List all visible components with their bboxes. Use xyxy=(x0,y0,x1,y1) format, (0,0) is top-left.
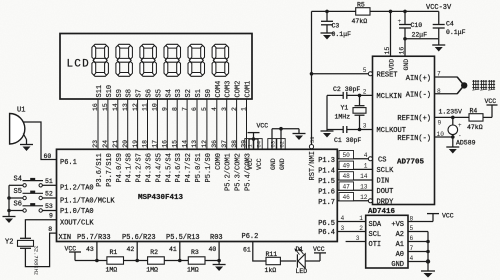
MCU RST/NMI pin 58 wire to AD7705 RESET xyxy=(309,11,369,180)
svg-text:S8: S8 xyxy=(126,89,134,97)
svg-text:VCC: VCC xyxy=(442,212,454,219)
svg-text:15: 15 xyxy=(384,47,391,55)
MCU GND pins 63 and 62 xyxy=(268,127,299,170)
svg-text:XOUT/CLK: XOUT/CLK xyxy=(60,220,94,228)
svg-text:R2: R2 xyxy=(150,249,158,256)
wire clock caps ground rail xyxy=(326,95,328,131)
wire +VS to VCC xyxy=(408,214,433,222)
svg-text:20: 20 xyxy=(122,140,129,148)
capacitor C2 30pF xyxy=(327,86,373,99)
svg-text:6: 6 xyxy=(191,107,198,111)
svg-text:4: 4 xyxy=(410,255,414,262)
svg-text:12: 12 xyxy=(201,140,208,148)
svg-text:P5.1/S0: P5.1/S0 xyxy=(205,153,213,182)
svg-text:S5: S5 xyxy=(155,89,163,97)
svg-text:R4: R4 xyxy=(470,107,478,114)
ground for AD589 xyxy=(446,147,459,154)
svg-text:16: 16 xyxy=(399,47,406,55)
svg-text:P4.6/S3: P4.6/S3 xyxy=(175,153,183,182)
svg-text:32.768kHz: 32.768kHz xyxy=(33,246,40,276)
LCD digit 1 xyxy=(92,44,109,76)
svg-text:3: 3 xyxy=(341,225,345,232)
wire LCD bias rail xyxy=(75,242,221,263)
svg-text:S5: S5 xyxy=(14,188,22,196)
svg-text:13: 13 xyxy=(360,183,368,190)
svg-text:5: 5 xyxy=(201,107,208,111)
wires A2 A1 A0 GND to ground rail xyxy=(408,232,430,272)
svg-text:P4.7/S2: P4.7/S2 xyxy=(185,153,193,182)
svg-text:37: 37 xyxy=(221,140,228,148)
svg-text:S3: S3 xyxy=(175,89,183,97)
ground for clock caps xyxy=(321,131,334,138)
svg-text:60: 60 xyxy=(44,153,52,160)
svg-text:1: 1 xyxy=(241,107,248,111)
svg-text:P1.3: P1.3 xyxy=(318,157,335,165)
LCD digit 2 xyxy=(116,44,132,76)
LCD digit 6 xyxy=(212,44,229,76)
svg-text:-: - xyxy=(458,133,462,140)
svg-text:COM1: COM1 xyxy=(245,81,253,98)
MCU right pin labels P1.3-P1.7 P6.5 P6.4 xyxy=(318,157,335,237)
svg-text:S11: S11 xyxy=(96,85,104,98)
LCD digit 5 xyxy=(188,44,205,76)
svg-text:Y2: Y2 xyxy=(5,239,13,247)
svg-text:62: 62 xyxy=(279,141,286,148)
wire XOUT/CLK pin 9 to crystal xyxy=(25,213,56,239)
svg-text:P5.2/COM1: P5.2/COM1 xyxy=(225,153,233,191)
wire buzzer to MCU pin 60 P6.1 xyxy=(23,122,56,160)
svg-text:R3: R3 xyxy=(191,249,199,256)
thermocouple label (hanzi) xyxy=(472,80,495,90)
svg-text:AIN(-): AIN(-) xyxy=(406,91,431,99)
svg-text:1.235V: 1.235V xyxy=(439,109,463,116)
svg-text:GND: GND xyxy=(403,59,410,71)
svg-text:S9: S9 xyxy=(116,89,124,97)
LCD digit 4 xyxy=(164,44,181,76)
svg-text:S6: S6 xyxy=(14,201,22,209)
svg-text:P1.6: P1.6 xyxy=(318,188,335,196)
svg-text:14: 14 xyxy=(360,173,368,180)
svg-text:58: 58 xyxy=(309,136,316,143)
svg-text:A1: A1 xyxy=(396,241,404,249)
svg-text:AD589: AD589 xyxy=(456,140,476,147)
AD7416 right pin labels xyxy=(391,215,413,268)
ground for AD7416 address pins xyxy=(421,271,435,278)
svg-text:S10: S10 xyxy=(106,85,114,98)
capacitor C10 22uF xyxy=(398,11,428,38)
svg-text:18: 18 xyxy=(142,140,149,148)
crystal Y2 32.768kHz xyxy=(5,238,40,275)
buzzer U1 xyxy=(10,107,26,145)
ADC U3 AD7705 box xyxy=(373,56,435,204)
ground for switches xyxy=(3,217,16,224)
svg-text:REFIN(-): REFIN(-) xyxy=(397,135,431,143)
svg-text:P6.5: P6.5 xyxy=(318,220,335,228)
svg-text:VDD: VDD xyxy=(389,59,396,71)
svg-text:GND: GND xyxy=(391,261,404,269)
svg-text:VCC: VCC xyxy=(257,123,269,130)
svg-text:MCLKIN: MCLKIN xyxy=(377,93,402,101)
svg-text:3: 3 xyxy=(363,123,367,130)
ground for supply caps xyxy=(432,45,445,52)
svg-text:3: 3 xyxy=(221,107,228,111)
svg-text:12: 12 xyxy=(132,103,139,111)
svg-text:P4.1/S8: P4.1/S8 xyxy=(126,153,134,182)
svg-text:S2: S2 xyxy=(185,89,193,97)
power VCC symbol at R33 ladder xyxy=(65,246,82,261)
svg-text:MSP430F413: MSP430F413 xyxy=(138,194,184,202)
LED D1 xyxy=(294,246,307,275)
svg-text:P5.7/R33: P5.7/R33 xyxy=(77,234,111,242)
svg-text:SDA: SDA xyxy=(369,221,382,229)
resistor R4 47k xyxy=(467,105,492,131)
svg-text:P4.5/S4: P4.5/S4 xyxy=(165,153,173,182)
svg-text:AIN(+): AIN(+) xyxy=(406,75,431,83)
svg-text:46: 46 xyxy=(342,194,350,201)
svg-text:12: 12 xyxy=(360,194,368,201)
svg-text:4: 4 xyxy=(211,107,218,111)
svg-text:COM3: COM3 xyxy=(225,81,233,98)
svg-text:DRDY: DRDY xyxy=(377,198,395,206)
svg-text:P3.7/S10: P3.7/S10 xyxy=(106,153,114,187)
svg-text:48: 48 xyxy=(342,173,350,180)
crystal Y1 1MHz xyxy=(335,94,367,132)
svg-text:RST/NMI: RST/NMI xyxy=(309,151,317,180)
svg-text:14: 14 xyxy=(181,140,188,148)
svg-text:VCC: VCC xyxy=(256,158,263,170)
svg-text:VCC: VCC xyxy=(313,246,325,253)
svg-text:51: 51 xyxy=(45,178,53,185)
svg-text:16: 16 xyxy=(92,103,99,111)
wire crystal to XIN pin 8 xyxy=(25,226,56,267)
svg-text:P5.3/COM2: P5.3/COM2 xyxy=(235,153,243,191)
svg-text:10: 10 xyxy=(152,103,159,111)
svg-text:8: 8 xyxy=(171,107,178,111)
svg-text:5: 5 xyxy=(363,67,367,74)
switch S6 pushbutton xyxy=(9,201,57,213)
MCU VCC pins 1 and 64 xyxy=(245,133,263,170)
svg-text:C3: C3 xyxy=(332,22,340,29)
svg-text:S4: S4 xyxy=(14,176,22,184)
svg-text:P3.6/S11: P3.6/S11 xyxy=(96,153,104,187)
wires MCU P6.5 P6.4 to AD7416 SDA SCL xyxy=(337,215,365,232)
AD7705 VDD GND top pins xyxy=(384,11,410,70)
power VCC symbol above MCU xyxy=(248,123,269,133)
svg-text:4: 4 xyxy=(364,152,368,159)
svg-text:7: 7 xyxy=(410,245,414,252)
MCU bottom row pin labels xyxy=(59,233,259,242)
resistor R11 1k xyxy=(265,251,297,274)
svg-text:SCL: SCL xyxy=(369,231,382,239)
svg-text:43: 43 xyxy=(86,246,94,253)
svg-text:3: 3 xyxy=(356,235,360,242)
svg-text:C1 30pF: C1 30pF xyxy=(334,137,361,144)
svg-text:15: 15 xyxy=(171,140,178,148)
svg-text:2: 2 xyxy=(359,225,363,232)
LCD module xyxy=(60,34,252,100)
svg-text:1MΩ: 1MΩ xyxy=(106,266,118,273)
svg-text:P1.1/TA0/MCLK: P1.1/TA0/MCLK xyxy=(60,198,115,206)
svg-text:1: 1 xyxy=(359,215,363,222)
switch S4 pushbutton xyxy=(9,176,57,188)
wire AIN+ pin 7 xyxy=(435,76,458,78)
svg-text:R11: R11 xyxy=(266,251,278,258)
svg-text:S0: S0 xyxy=(205,89,213,97)
svg-text:14: 14 xyxy=(112,103,119,111)
svg-text:4: 4 xyxy=(341,215,345,222)
wire LED to VCC xyxy=(305,253,320,261)
wires LCD to MCU with pin numbers xyxy=(92,99,248,149)
svg-text:9: 9 xyxy=(438,120,442,127)
svg-text:GND: GND xyxy=(270,158,277,170)
svg-text:A0: A0 xyxy=(396,251,404,259)
svg-text:CS: CS xyxy=(378,157,386,165)
MCU top segment pin labels xyxy=(96,153,253,191)
resistor R5 47k xyxy=(352,1,371,25)
svg-text:61: 61 xyxy=(243,247,251,254)
resistor R3 1M xyxy=(187,249,205,273)
svg-text:7: 7 xyxy=(437,70,441,77)
svg-text:6: 6 xyxy=(410,235,414,242)
svg-text:VCC: VCC xyxy=(247,158,254,170)
svg-text:RESET: RESET xyxy=(377,72,398,80)
wires MCU P1.3-P1.7 to AD7705 with pin number boxes xyxy=(337,151,372,202)
svg-text:P6.2: P6.2 xyxy=(242,233,259,241)
svg-text:47kΩ: 47kΩ xyxy=(352,18,368,25)
svg-text:GND: GND xyxy=(279,158,286,170)
svg-text:23: 23 xyxy=(92,140,99,148)
svg-text:U1: U1 xyxy=(17,107,25,115)
svg-text:P1.4: P1.4 xyxy=(318,168,335,176)
svg-text:36: 36 xyxy=(211,140,218,148)
svg-text:9: 9 xyxy=(49,213,53,220)
svg-text:15: 15 xyxy=(102,103,109,111)
svg-text:A2: A2 xyxy=(396,231,404,239)
svg-text:P6.4: P6.4 xyxy=(318,229,335,237)
temperature sensor U4 AD7416 box xyxy=(366,208,408,268)
svg-text:Y1: Y1 xyxy=(341,105,349,112)
svg-text:P4.4/S5: P4.4/S5 xyxy=(155,153,163,182)
svg-text:47kΩ: 47kΩ xyxy=(467,124,483,131)
svg-text:1: 1 xyxy=(364,163,368,170)
svg-text:64: 64 xyxy=(256,140,263,147)
wire AIN- pin 8 xyxy=(435,93,458,95)
svg-text:41: 41 xyxy=(169,246,177,253)
thermocouple junction symbol xyxy=(457,77,467,94)
svg-text:13: 13 xyxy=(122,103,129,111)
ground for C3 xyxy=(321,33,334,40)
svg-text:1MΩ: 1MΩ xyxy=(146,266,158,273)
MCU left pin labels xyxy=(60,159,115,228)
wire REFIN- pin 10 xyxy=(435,135,455,139)
AD7705 right pin labels xyxy=(397,70,444,143)
svg-text:17: 17 xyxy=(152,140,159,148)
svg-text:OTI: OTI xyxy=(369,241,382,249)
svg-text:P4.3/S6: P4.3/S6 xyxy=(146,153,154,182)
wire REFIN+ pin 9 to R4 and VCC xyxy=(435,109,470,120)
ground at end of bias ladder xyxy=(213,261,226,272)
svg-text:53: 53 xyxy=(45,203,53,210)
svg-text:8: 8 xyxy=(48,226,52,233)
svg-text:7: 7 xyxy=(181,107,188,111)
svg-text:REFIN(+): REFIN(+) xyxy=(397,115,431,123)
svg-text:P1.5: P1.5 xyxy=(318,178,335,186)
svg-text:24: 24 xyxy=(102,140,109,148)
svg-text:11: 11 xyxy=(142,103,149,111)
resistor R2 1M xyxy=(146,249,164,273)
svg-text:21: 21 xyxy=(112,140,119,148)
svg-text:+VS: +VS xyxy=(391,221,404,229)
capacitor C1 30pF xyxy=(327,126,373,144)
svg-text:P5.5/R13: P5.5/R13 xyxy=(166,234,200,242)
wire C10 C4 ground rail xyxy=(403,37,439,45)
svg-text:S6: S6 xyxy=(146,89,154,97)
AD7416 left pin labels xyxy=(369,221,382,249)
svg-text:SCLK: SCLK xyxy=(377,167,395,175)
svg-text:P5.6/R23: P5.6/R23 xyxy=(122,234,156,242)
svg-text:1kΩ: 1kΩ xyxy=(265,267,277,274)
svg-text:AD7416: AD7416 xyxy=(368,208,396,216)
svg-text:S4: S4 xyxy=(165,89,173,97)
svg-text:S1: S1 xyxy=(195,89,203,97)
svg-text:P4.2/S7: P4.2/S7 xyxy=(136,153,144,182)
svg-text:2: 2 xyxy=(231,107,238,111)
svg-text:DIN: DIN xyxy=(377,178,390,186)
svg-text:C4: C4 xyxy=(446,20,454,27)
svg-text:+: + xyxy=(458,122,462,129)
svg-text:P4.0/S9: P4.0/S9 xyxy=(116,153,124,182)
svg-text:0.1μF: 0.1μF xyxy=(446,29,466,36)
svg-text:42: 42 xyxy=(127,246,135,253)
svg-text:MCLKOUT: MCLKOUT xyxy=(377,127,406,135)
svg-text:P1.7: P1.7 xyxy=(318,199,335,207)
ground for MCU GND pins xyxy=(293,134,306,141)
svg-text:2: 2 xyxy=(363,88,367,95)
svg-text:1MΩ: 1MΩ xyxy=(187,266,199,273)
svg-text:5: 5 xyxy=(410,225,414,232)
svg-text:1MHz: 1MHz xyxy=(335,113,351,120)
power VCC symbol at LED xyxy=(313,246,326,253)
wire MCU pin 61 P6.2 to R11 xyxy=(243,242,266,262)
svg-text:COM0: COM0 xyxy=(215,153,223,170)
svg-text:R03: R03 xyxy=(210,234,223,242)
svg-text:49: 49 xyxy=(342,163,350,170)
wire VCC-3V supply rail xyxy=(312,4,453,13)
LCD pin name labels S11..COM1 xyxy=(96,81,253,98)
ground for buzzer xyxy=(20,134,33,152)
svg-text:C10: C10 xyxy=(411,22,423,29)
svg-text:9: 9 xyxy=(162,107,169,111)
svg-text:XIN: XIN xyxy=(59,234,72,242)
svg-text:38: 38 xyxy=(231,140,238,148)
power VCC symbol at R4 xyxy=(485,98,498,105)
svg-text:52: 52 xyxy=(45,191,53,198)
resistor R1 1M xyxy=(106,249,124,273)
svg-text:R5: R5 xyxy=(357,1,365,8)
svg-text:P6.1: P6.1 xyxy=(60,159,77,167)
LCD digit 3 xyxy=(140,44,157,76)
svg-text:P1.2/TA0: P1.2/TA0 xyxy=(60,185,94,193)
svg-text:40: 40 xyxy=(209,246,217,253)
AD7705 left pin labels xyxy=(363,67,406,207)
AD7416 OTI stub wire xyxy=(346,235,366,242)
svg-text:DOUT: DOUT xyxy=(377,188,394,196)
svg-text:13: 13 xyxy=(191,140,198,148)
capacitor C4 0.1uF xyxy=(433,11,466,38)
svg-text:50: 50 xyxy=(342,152,350,159)
svg-text:P1.0/TA0: P1.0/TA0 xyxy=(60,208,94,216)
svg-text:19: 19 xyxy=(132,140,139,148)
svg-text:AD7705: AD7705 xyxy=(397,159,425,167)
svg-text:C2 30pF: C2 30pF xyxy=(333,86,360,93)
svg-text:COM4: COM4 xyxy=(215,81,223,98)
switch common rail to ground xyxy=(7,185,11,216)
svg-text:R1: R1 xyxy=(110,249,118,256)
svg-text:+: + xyxy=(398,18,402,25)
svg-text:S7: S7 xyxy=(136,89,144,97)
svg-text:COM2: COM2 xyxy=(235,81,243,98)
svg-text:63: 63 xyxy=(270,141,277,148)
capacitor C3 0.1uF xyxy=(321,11,351,37)
voltage reference D2 AD589 xyxy=(448,117,476,147)
svg-text:P5.0/S1: P5.0/S1 xyxy=(195,153,203,182)
svg-text:LED: LED xyxy=(296,268,308,275)
svg-text:VCC-3V: VCC-3V xyxy=(426,4,452,12)
svg-text:0.1μF: 0.1μF xyxy=(332,31,352,38)
power VCC symbol at AD7416 xyxy=(427,212,454,219)
MCU U2 MSP430F413 box xyxy=(57,149,338,241)
switch S5 pushbutton xyxy=(9,188,57,200)
svg-text:47: 47 xyxy=(342,183,350,190)
svg-text:LCD: LCD xyxy=(67,59,90,71)
svg-text:16: 16 xyxy=(162,140,169,148)
svg-text:22μF: 22μF xyxy=(412,31,428,38)
svg-text:VCC: VCC xyxy=(485,98,497,105)
